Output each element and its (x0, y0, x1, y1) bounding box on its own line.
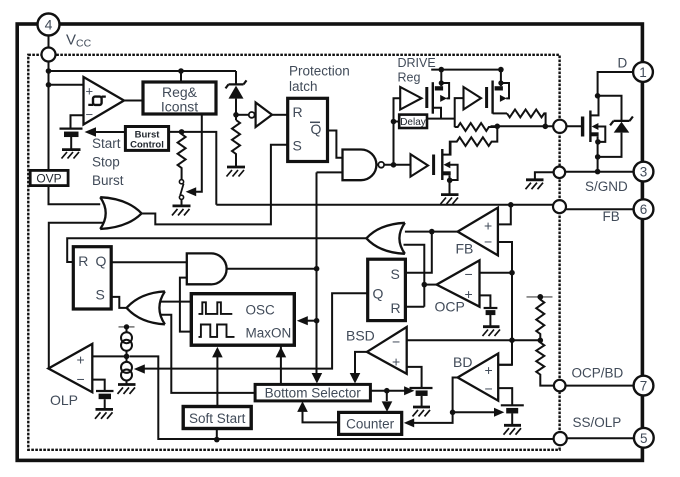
svg-text:Control: Control (130, 140, 164, 151)
latch U7 SQR latch box (368, 259, 406, 320)
svg-text:Q: Q (96, 253, 107, 269)
ground at S/GND node (526, 172, 554, 189)
wire OCP/BD node to pin 7 (566, 385, 634, 387)
and gate U6 (187, 253, 227, 284)
wire bottom selector output (370, 390, 404, 392)
wire FB comp minus riser (498, 242, 512, 365)
wire Reg&Iconst top feed (180, 71, 182, 82)
node circle SS/OLP on dashed border (554, 432, 567, 445)
node circle S/GND on dashed border (554, 167, 566, 179)
arrowhead BD to cap node (494, 408, 504, 417)
wire OCP minus to reference bus (480, 272, 513, 274)
svg-text:Q: Q (311, 121, 322, 137)
capacitor OLP minus (96, 391, 114, 409)
block Burst Control (125, 127, 168, 151)
wire soft start up to OSC (216, 357, 218, 407)
svg-text:Q: Q (373, 286, 384, 302)
wire FB comp plus riser (498, 205, 511, 225)
wire FB comp output to OR3 (403, 231, 458, 233)
arrowhead into OSC right (297, 316, 308, 325)
resistor R1 (M2 source) (507, 110, 546, 127)
junction dot source arm (595, 139, 601, 145)
ground under CS2 (118, 385, 136, 394)
junction dot delay input (391, 119, 397, 125)
junction dot zener anode (595, 154, 601, 160)
svg-text:SS/OLP: SS/OLP (573, 415, 622, 430)
node dot Vcc rail 2 (46, 82, 52, 88)
nand gate U4 (343, 150, 385, 181)
svg-text:S: S (293, 138, 302, 154)
wire OCP output (424, 284, 436, 286)
svg-text:−: − (392, 334, 400, 350)
svg-text:6: 6 (640, 202, 648, 217)
pin 6 circle (634, 199, 654, 219)
arrowhead burst control to cap (85, 127, 97, 136)
wire zener anode to source (598, 133, 622, 157)
wire BD plus from reference bus (498, 364, 512, 366)
wire switch to ground (181, 199, 183, 205)
pin 1 circle (633, 62, 653, 82)
svg-text:+: + (465, 286, 473, 302)
capacitor BD minus (501, 405, 524, 424)
wire NAND output up to driver / delay (394, 98, 401, 165)
svg-text:BD: BD (453, 354, 472, 370)
junction dot OCP output (422, 282, 428, 288)
wire latch1 Qbar to NAND input1 (328, 131, 343, 158)
svg-text:Stop: Stop (92, 155, 120, 170)
svg-text:−: − (465, 266, 473, 282)
svg-text:Soft Start: Soft Start (189, 411, 246, 426)
junction dot bottom selector out (384, 388, 390, 394)
wire bottom selector to counter (386, 391, 388, 401)
wire OCP plus to cap (480, 295, 491, 307)
wire BD minus to cap (498, 388, 512, 405)
svg-text:Delay: Delay (400, 117, 426, 128)
node circle drive output (553, 120, 566, 133)
wire BD output down (453, 378, 458, 413)
svg-text:−: − (86, 107, 94, 122)
block Bottom Selector (255, 384, 370, 401)
arrowhead into counter (404, 418, 414, 427)
arrowhead MaxON shaft into OSC (276, 347, 287, 358)
zener diode D1 (226, 80, 247, 98)
svg-text:S/GND: S/GND (585, 179, 628, 194)
wire latch2 Q to current source arrow line (145, 293, 368, 368)
wire OR3 output to latch1 R line (67, 238, 366, 262)
svg-text:OCP/BD: OCP/BD (572, 366, 624, 381)
wire top rail from Vcc to zener (49, 71, 237, 85)
junction dot rail M2 (498, 67, 504, 73)
junction dot FB out / latch2 S (429, 229, 435, 235)
wire vertical bus NAND/OSC/BottomSelector (316, 172, 318, 378)
inverter U2 (input bubble) (249, 103, 272, 128)
transistor M3 gate bar (432, 155, 435, 176)
ground BSD cap (413, 407, 431, 416)
divider top bar (527, 294, 553, 300)
node circle OCP/BD on dashed border (554, 380, 566, 392)
arrowhead into current source CS2 (134, 364, 145, 373)
wire latch1 S from OR2 (111, 297, 126, 308)
wire delay output to B2 (427, 98, 464, 127)
wire burst control right to FB net corner (169, 132, 217, 205)
junction dot soft start on SS line (214, 437, 220, 443)
svg-text:7: 7 (640, 379, 648, 394)
svg-text:OLP: OLP (50, 392, 78, 408)
svg-text:4: 4 (45, 17, 53, 33)
wire U1 output to Reg&Iconst (124, 100, 143, 102)
svg-text:1: 1 (639, 65, 647, 80)
node circle FB on dashed border (553, 200, 566, 213)
wire BSD output to bottom selector (355, 352, 367, 379)
wire AND output to bus (227, 268, 317, 270)
junction dot AND out on bus (314, 266, 320, 272)
svg-text:R: R (78, 253, 88, 269)
svg-text:S: S (96, 287, 105, 303)
arrowhead into counter top (382, 401, 393, 412)
switch contact top (179, 180, 183, 184)
ground OCP cap (483, 327, 501, 336)
svg-text:+: + (392, 354, 400, 370)
wire zener branch (598, 96, 622, 120)
arrowhead counter into bottom selector (297, 401, 308, 412)
wire counter to bottom selector (303, 410, 339, 423)
svg-text:5: 5 (640, 431, 648, 446)
op-amp FB comparator (458, 208, 498, 256)
junction dot BD output (450, 410, 456, 416)
op-amp BSD comparator (367, 327, 407, 374)
wire BD out to counter (414, 412, 453, 423)
pin 3 circle (634, 162, 654, 182)
current source bias bar (119, 324, 135, 329)
transistor M1 (433, 70, 449, 119)
svg-text:Protection: Protection (289, 64, 350, 79)
switch arm (180, 184, 183, 196)
arrowhead soft start into OSC (212, 347, 223, 358)
wire Reg&Iconst bottom to switch arrow (196, 114, 202, 192)
pin 7 circle (634, 376, 654, 396)
wire Vcc vertical (49, 36, 105, 205)
svg-text:FB: FB (603, 209, 620, 224)
ground under switch (172, 206, 191, 216)
junction dot zener-resistor node (233, 112, 239, 118)
DRIVE Reg label (398, 56, 436, 85)
wire OR2 input1 from OSC (161, 301, 192, 303)
wire BD out to cap node arrow (453, 411, 495, 413)
svg-text:OCP: OCP (435, 299, 465, 315)
wire OR2 input2 from bottom selector net (161, 315, 255, 393)
zener diode D2 (610, 117, 633, 133)
buffer B1 (400, 87, 421, 110)
or-gate OR3 (left pointing) (366, 223, 405, 254)
wire to delay box (394, 121, 400, 123)
resistor divider R4 (536, 297, 544, 340)
wire S/GND line to pin 3 (565, 171, 634, 173)
svg-text:FB: FB (456, 241, 474, 257)
capacitor BSD plus (410, 388, 433, 406)
svg-text:+: + (77, 352, 85, 368)
svg-text:DRIVE: DRIVE (398, 56, 436, 70)
wire latch1 Q to AND input1 (111, 261, 187, 263)
wire OLP minus to cap (92, 380, 104, 391)
svg-text:S: S (391, 266, 400, 282)
wire NAND output (384, 164, 410, 166)
resistor R3 (450, 126, 497, 154)
wire BSD minus / divider tap line (407, 339, 541, 341)
current source CS1 (121, 327, 132, 357)
junction dot above Reg&Iconst (178, 68, 184, 74)
block Reg&Iconst (143, 82, 216, 115)
ground OLP cap (95, 409, 113, 418)
capacitor on U1 minus (60, 129, 83, 149)
wire OR1 output to latch1 S (via riser) (142, 145, 288, 225)
wire inverter out to latch R (272, 114, 288, 116)
ground under zener resistor (227, 167, 246, 177)
svg-text:+: + (86, 84, 94, 99)
svg-text:−: − (77, 371, 85, 387)
svg-text:OSC: OSC (246, 303, 276, 318)
svg-text:latch: latch (289, 79, 318, 94)
wire node line to gate (491, 125, 582, 127)
junction dot reference bus tap (509, 337, 515, 343)
wire zener to resistor (235, 99, 237, 120)
latch U3 protection latch box (288, 98, 328, 161)
or-gate OR1 (100, 197, 141, 229)
node dot Vcc rail 1 (46, 68, 52, 74)
svg-text:−: − (485, 381, 493, 397)
capacitor OCP plus (484, 308, 498, 326)
junction dot R2/R3 node (495, 124, 501, 130)
wire latch2 S input (406, 232, 432, 273)
wire U1 minus input (71, 115, 84, 127)
buffer B2 (464, 87, 482, 110)
transistor Mout output MOSFET (590, 98, 605, 172)
latch U5 RS latch box (73, 247, 111, 309)
junction dot reference bus OCP (509, 270, 515, 276)
block Counter (339, 412, 402, 434)
inner dashed boundary (28, 55, 559, 450)
block Soft Start (183, 407, 251, 429)
svg-text:3: 3 (640, 165, 648, 180)
transistor M1 gate bar (425, 87, 428, 108)
wire MaxON down to bottom selector (280, 345, 282, 384)
junction dot drain/zener (595, 93, 601, 99)
svg-text:−: − (484, 234, 492, 250)
svg-text:Bottom Selector: Bottom Selector (265, 386, 362, 401)
junction dot R1 node (543, 124, 549, 130)
op-amp U1 start/stop comparator (84, 77, 125, 125)
wire SS/OLP line (130, 356, 554, 439)
block OSC/MaxON (191, 294, 294, 346)
block OVP (30, 170, 68, 185)
resistor divider R5 (536, 340, 554, 385)
wire OLP plus to current sources (92, 355, 126, 357)
transistor M2 gate bar (485, 87, 488, 108)
junction dot source S/GND (595, 169, 601, 175)
ground BD cap (504, 425, 522, 434)
svg-text:Iconst: Iconst (161, 99, 198, 115)
transistor Mout gate bar (581, 117, 584, 137)
svg-text:MaxON: MaxON (246, 326, 292, 341)
wire rail down to zener D1 (235, 71, 237, 84)
wire NAND input2 from bus (317, 171, 343, 173)
arrowhead bottom selector to BSD cap (404, 386, 414, 395)
wire SS/OLP node to pin 5 (567, 437, 634, 439)
wire FB node to pin 6 (566, 208, 634, 210)
node circle on dashed border (Vcc) (42, 48, 56, 62)
svg-text:Counter: Counter (346, 417, 395, 432)
junction dot divider tap (538, 338, 544, 344)
wire OSC right input from bus (308, 320, 317, 322)
pin 5 circle (634, 428, 654, 448)
or-gate OR2 (left pointing) (127, 291, 165, 324)
wire OLP output up to OR1 input2 (49, 223, 104, 369)
svg-text:+: + (484, 218, 492, 234)
ground under U1 cap (62, 150, 81, 159)
wire OR3 input2 from OCP (404, 245, 425, 307)
junction dot NAND output (391, 162, 397, 168)
buffer B3 (411, 154, 429, 176)
current source CS2 (121, 356, 132, 384)
svg-text:Reg: Reg (398, 71, 421, 85)
wire AND input2 from MaxON (180, 278, 191, 332)
resistor burst divider (178, 132, 186, 180)
arrowhead bus into bottom selector (312, 373, 323, 384)
op-amp OCP comparator (437, 260, 480, 306)
op-amp OLP comparator (48, 344, 92, 392)
svg-text:D: D (618, 56, 628, 71)
resistor below zener (232, 120, 240, 166)
arrowhead at switch arm (186, 187, 197, 196)
svg-text:+: + (485, 362, 493, 378)
svg-text:R: R (391, 300, 401, 316)
svg-text:VCC: VCC (66, 32, 92, 50)
wire drain to pin D (598, 72, 634, 98)
transistor M3 (442, 142, 457, 194)
junction dot between current sources (124, 354, 130, 360)
pin 4 circle (38, 14, 60, 36)
switch contact bottom (179, 195, 183, 199)
junction dot FB plus input (508, 202, 514, 208)
ground under M3 (441, 195, 459, 204)
svg-text:Burst: Burst (92, 173, 124, 188)
transistor M2 (493, 70, 509, 114)
block Delay (399, 115, 427, 128)
junction dot bus OSC (314, 318, 320, 324)
wire drive rail (431, 69, 503, 71)
wire latch2 R input from OCP (405, 306, 424, 308)
junction dot rail M1 (439, 67, 445, 73)
wire FB net horizontal (216, 204, 553, 206)
resistor R2 (455, 123, 498, 131)
svg-text:R: R (293, 104, 303, 120)
wire burst control to U1 cap (95, 131, 125, 133)
Start Stop Burst label (92, 136, 124, 188)
Protection latch label (289, 64, 350, 95)
svg-text:Start: Start (92, 136, 121, 151)
arrowhead BSD into bottom selector (350, 373, 361, 384)
svg-text:BSD: BSD (346, 328, 375, 344)
op-amp BD comparator (458, 354, 499, 401)
junction dot burst resistor top (179, 129, 185, 135)
wire BSD plus to cap (407, 367, 422, 388)
wire soft start bottom to SS/OLP line (216, 429, 218, 440)
svg-text:OVP: OVP (36, 171, 61, 185)
wire zener node to inverter (236, 114, 249, 116)
